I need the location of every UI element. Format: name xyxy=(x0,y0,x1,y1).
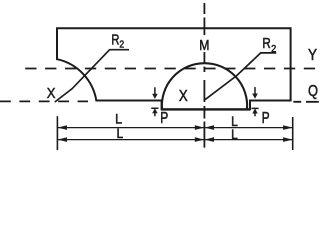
boss arc R2 semicircular boss xyxy=(162,63,247,109)
P left up arrow stem and crossbar xyxy=(151,108,158,116)
svg-text:L: L xyxy=(117,125,124,141)
svg-text:X: X xyxy=(179,88,188,105)
leader line right (R2 to boss centre) xyxy=(205,53,276,100)
svg-text:P: P xyxy=(262,110,270,127)
P right up arrow stem and crossbar xyxy=(252,108,259,116)
bar outline xyxy=(57,28,291,109)
P left down arrowhead xyxy=(152,94,158,99)
svg-text:2: 2 xyxy=(119,39,124,50)
P right up arrowhead xyxy=(252,108,257,113)
dashed line Q left part xyxy=(0,100,88,102)
svg-text:L: L xyxy=(115,111,122,127)
dimension arrowhead row 1 at right extension xyxy=(283,125,293,130)
boss baseline (thicker overdraw) xyxy=(162,108,250,110)
left extension line xyxy=(56,116,58,150)
P left down arrow stem xyxy=(154,87,156,94)
centerline M (vertical dashed) xyxy=(203,3,205,148)
right extension line xyxy=(292,117,294,150)
svg-text:L: L xyxy=(231,126,238,142)
dimension arrowheads row 2 at left extension xyxy=(57,137,67,142)
svg-text:M: M xyxy=(199,37,209,54)
dashed line Y xyxy=(25,68,318,70)
P left up arrowhead xyxy=(152,108,157,113)
P right down arrow stem xyxy=(254,87,256,95)
dashed line Q right part xyxy=(293,101,318,103)
dimension arrowhead row 2 at right extension xyxy=(283,137,293,142)
dimension arrowheads row 1 at left extension xyxy=(57,125,67,130)
svg-text:P: P xyxy=(160,110,168,127)
svg-text:R: R xyxy=(262,35,271,52)
svg-text:X: X xyxy=(47,85,56,102)
dimension arrowheads row 1 at centerline xyxy=(195,125,205,130)
svg-text:R: R xyxy=(111,31,119,48)
leader line left (X / R2) xyxy=(55,50,129,102)
dimension row 2 lines xyxy=(57,139,292,141)
P right down arrowhead xyxy=(252,94,258,99)
dimension arrowheads row 2 at centerline xyxy=(195,137,205,142)
dimension row 1 lines xyxy=(57,127,292,129)
svg-text:Q: Q xyxy=(308,83,318,100)
svg-text:2: 2 xyxy=(271,44,277,55)
svg-text:Y: Y xyxy=(308,47,317,64)
